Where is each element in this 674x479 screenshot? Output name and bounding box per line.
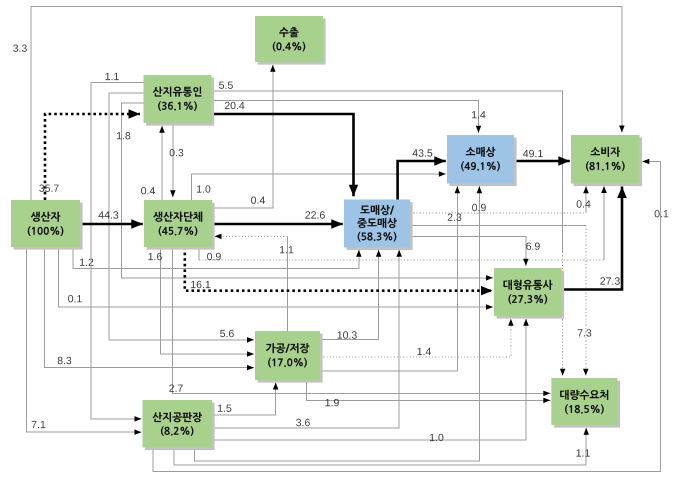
wire flow 44.3 producer-to-coop thick (80, 211, 143, 229)
wire flow 22.6 coop-to-wholesale thick (212, 211, 343, 229)
wire flow 5.6 shipper-to-processing (109, 93, 254, 342)
wire flow 0.1 producer-to-bigretail (59, 247, 494, 310)
wire flow 43.5 wholesale-to-retail thick (398, 149, 446, 199)
wire flow 1.4 shipper-to-retail (212, 100, 486, 132)
wire flow 0.9 joint-to-retail (194, 186, 486, 461)
node box sanji-gongpanjang joint-market (143, 400, 215, 450)
wire flow 0.4 coop-to-shipper (141, 126, 165, 200)
node box sanji-yutongin shipper (144, 75, 215, 126)
node box saengsanja-danche coop (144, 200, 215, 250)
wire flow 6.9 wholesale-to-bigretail (410, 236, 540, 265)
wire flow 1.1 joint-to-bulkbuyer (174, 428, 590, 465)
wire flow 7.3 wholesale-to-bulkbuyer (410, 226, 591, 376)
wire flow 2.3 processing-to-retail (320, 186, 461, 371)
wire flow 1.5 joint-to-processing (212, 383, 278, 416)
wire flow 2.7 coop-to-bulkbuyer (169, 247, 550, 396)
wire flow 1.2 producer-to-wholesale (73, 247, 362, 269)
wire flow 49.1 retail-to-consumer thick (514, 150, 570, 166)
wire flow 16.1 coop-to-bigretail dotted (185, 247, 493, 295)
wire flow 1.0 joint-to-bigretail (212, 319, 529, 441)
wire flow 8.3 producer-to-processing (44, 247, 254, 370)
node box gagong-jeojang processing (255, 331, 323, 383)
wire flow 27.3 bigretail-to-consumer thick (562, 187, 627, 290)
wire flow 7.1 producer-to-joint-market (27, 247, 142, 435)
wire flow 1.1 processing-to-coop (215, 234, 294, 331)
node box domaesang wholesale (344, 200, 413, 251)
wire flow 0.4 wholesale-to-consumer (410, 186, 591, 213)
node box daehyeong-yutongsa bigretail (494, 268, 564, 319)
node box daeryang-suyocheo bulkbuyer (551, 378, 620, 428)
wire flow 0.3 shipper-to-coop (170, 123, 184, 197)
wire flow 1.8 shipper-to-bigretail (117, 103, 493, 281)
wire flow 0.1 joint-to-consumer (153, 159, 669, 472)
wire flow 3.3 producer-to-consumer (13, 7, 625, 201)
node box saengsanja producer (11, 200, 83, 250)
wire flow 5.5 shipper-to-bulkbuyer (212, 82, 566, 376)
node box somaesang retail (447, 135, 517, 186)
wire flow 1.6 coop-to-processing (149, 247, 255, 357)
node box suchul export (255, 16, 326, 65)
wire flow 1.0 coop-to-retail (192, 171, 446, 200)
wire flow 0.9 coop-to-consumer (199, 186, 607, 260)
wire flow 1.1 shipper-to-joint-market (91, 73, 144, 422)
wire flow 10.3 processing-to-wholesale (320, 250, 381, 339)
node box sobija consumer (571, 135, 642, 186)
wire flow 0.4 coop-to-export (212, 65, 276, 208)
wire flow 35.7 producer-to-shipper dotted (39, 109, 140, 200)
wire flow 1.9 processing-to-bulkbuyer (307, 380, 551, 406)
wire flow 20.4 shipper-to-wholesale thick (212, 102, 359, 196)
wire flow 1.4 processing-to-bigretail (320, 319, 514, 357)
wire flow 3.6 joint-to-wholesale (212, 250, 402, 428)
